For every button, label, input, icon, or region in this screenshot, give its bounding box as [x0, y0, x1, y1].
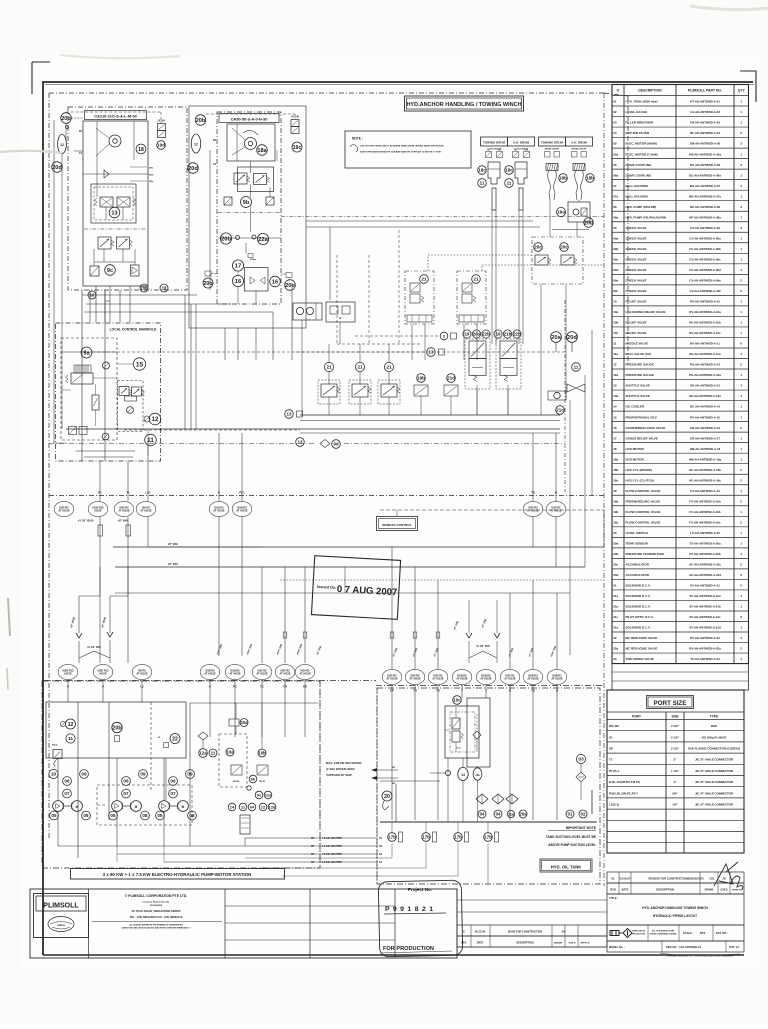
node circles (U2)	[236, 236, 240, 240]
svg-text:BALL VALVE (1/2): BALL VALVE (1/2)	[626, 352, 651, 356]
svg-text:LS(2,1): LS(2,1)	[609, 803, 619, 807]
motor-pump set (pump group x117)	[112, 801, 123, 812]
svg-text:A.H. DRUM: A.H. DRUM	[571, 141, 587, 145]
svg-text:CHECK VALVE: CHECK VALVE	[626, 247, 647, 251]
suction header lines	[58, 845, 377, 847]
oil cooler 14 body	[240, 815, 250, 834]
svg-text:# 2 1/2" Ø40 PIPE: # 2 1/2" Ø40 PIPE	[322, 853, 342, 856]
solenoid DCV 21 station x389	[388, 344, 390, 362]
svg-text:M: M	[135, 805, 138, 809]
svg-text:SP: SP	[311, 853, 315, 856]
breather diamond	[576, 772, 586, 782]
wire 20b dash to K1 (U2)	[206, 113, 295, 115]
svg-text:9a: 9a	[83, 351, 90, 357]
svg-text:1 1/2": 1 1/2"	[671, 769, 680, 773]
wire manifold A drops	[411, 324, 413, 360]
svg-text:AT HOSE: AT HOSE	[409, 677, 421, 681]
svg-text:FV-AH-ANTWSD-A-19b: FV-AH-ANTWSD-A-19b	[689, 510, 721, 514]
motor-pump set (pump group x58)	[53, 801, 64, 812]
pilot dash line (U2)	[218, 212, 281, 214]
wire remote control stub	[396, 510, 398, 516]
hose label I025 R2 x438 (lower right row)	[428, 669, 448, 684]
svg-text:SV-AH-ANTWSD-A-21c: SV-AH-ANTWSD-A-21c	[689, 615, 721, 619]
model no / drg no row	[607, 941, 744, 952]
svg-text:JIC 37° MALE CONNECTOR: JIC 37° MALE CONNECTOR	[695, 803, 734, 807]
pump 08 (pump group x58)	[82, 811, 91, 820]
cooler assembly upper node	[229, 719, 239, 726]
svg-text:FV-AH-ANTWSD-A-19a: FV-AH-ANTWSD-A-19a	[689, 499, 721, 503]
frame inner top line	[45, 84, 754, 86]
relief valve pair (U2)	[234, 173, 247, 184]
svg-text:DRAWN: DRAWN	[705, 889, 714, 892]
accumulator 20c right	[560, 243, 569, 252]
pressure transducer 18 (U1)	[136, 144, 146, 154]
svg-text:M: M	[182, 805, 185, 809]
svg-text:PORT SIZE: PORT SIZE	[654, 700, 687, 707]
label circle 18c (A.H. DRUM)	[505, 166, 514, 175]
svg-text:ACCUMULATOR: ACCUMULATOR	[626, 563, 650, 567]
svg-text:JH: JH	[722, 877, 725, 881]
label circle 11 (TOWING DRUM)	[478, 179, 487, 188]
accumulator 20a symbol	[551, 332, 562, 343]
label circle 15	[133, 358, 145, 370]
svg-text:17b: 17b	[454, 835, 462, 840]
wire reducing row (U2)	[218, 237, 281, 239]
svg-text:CHECK VALVE: CHECK VALVE	[626, 289, 647, 293]
svg-text:TOWING DRUM: TOWING DRUM	[541, 141, 564, 145]
hose label I06 R2 x142 (lower left row)	[132, 664, 152, 679]
pump 08 (pump group x117)	[141, 811, 150, 820]
svg-text:FLOW CONTROL VALVE: FLOW CONTROL VALVE	[626, 520, 661, 524]
svg-text:9b: 9b	[251, 776, 256, 781]
svg-text:20d: 20d	[188, 166, 198, 172]
needle 11 (cooler)	[209, 749, 217, 757]
svg-text:HC-AH-ANTWSD-A-18c: HC-AH-ANTWSD-A-18c	[689, 478, 721, 482]
pressure transducer 20b (U1)	[61, 113, 72, 124]
wire right side verticals	[569, 400, 571, 655]
svg-text:20a: 20a	[551, 335, 561, 341]
flushing shuttle diamond	[473, 731, 481, 739]
svg-text:BV-AH-ANTWSD-A-11a: BV-AH-ANTWSD-A-11a	[689, 352, 721, 356]
svg-text:APPR'VD: APPR'VD	[732, 889, 742, 892]
pressure gauge 12 (station)	[66, 719, 76, 729]
pilot dash line (U1)	[84, 228, 147, 230]
company logo cell bottom right	[607, 925, 744, 941]
svg-text:AT HOSE: AT HOSE	[480, 677, 492, 681]
svg-text:06: 06	[613, 163, 617, 167]
svg-text:04: 04	[613, 131, 617, 135]
main pressure bus line	[113, 546, 604, 548]
svg-text:10c: 10c	[613, 331, 618, 335]
svg-text:CV-AH-ANTWSD-A-09a: CV-AH-ANTWSD-A-09a	[689, 236, 721, 240]
wire U1 left drain	[53, 120, 55, 443]
svg-text:LEVEL GAUGE: LEVEL GAUGE	[626, 110, 647, 114]
svg-text:2 1/2": 2 1/2"	[671, 735, 680, 739]
svg-text:MODEL No. :: MODEL No. :	[609, 945, 625, 949]
flow control valve 19c (U2)	[292, 142, 302, 152]
svg-text:10b: 10b	[613, 321, 618, 325]
wire flushing internals	[455, 707, 457, 718]
svg-text:# 2 1/2" Ø40 PIPE: # 2 1/2" Ø40 PIPE	[322, 845, 342, 848]
svg-text:04: 04	[480, 811, 485, 816]
svg-text:19: 19	[496, 332, 501, 337]
revision header row (right block)	[607, 883, 744, 894]
svg-text:10b: 10b	[475, 773, 480, 777]
svg-text:HYD. MOTORS VIEWS CAN OF ELSE: HYD. MOTORS VIEWS CAN OF ELSEWISE SWING …	[360, 145, 444, 148]
wire shuttle block drops	[301, 320, 303, 415]
svg-text:11a: 11a	[265, 792, 272, 797]
hose label I02B R2 x533 (lower right row)	[523, 669, 543, 684]
ball valve 11a circle	[507, 810, 514, 817]
accumulator 20d (U2)	[188, 163, 199, 174]
svg-text:21: 21	[473, 277, 479, 282]
coupling 06 (pump group x58)	[63, 777, 72, 786]
hose label I01B R2 x462 (lower right row)	[452, 669, 472, 684]
DCV station B circles 19 21b 22b	[494, 330, 502, 338]
svg-text:SIZE: SIZE	[671, 715, 678, 719]
svg-text:05: 05	[613, 142, 617, 146]
shuttle valve 13 node	[427, 348, 436, 357]
pump unit U2 boundary	[217, 112, 281, 304]
svg-text:1B: 1B	[339, 318, 342, 320]
svg-text:DESCRIPTION: DESCRIPTION	[638, 89, 662, 93]
svg-text:HYD MOTOR: HYD MOTOR	[626, 457, 645, 461]
check valve 09 (pump group x164)	[186, 770, 195, 779]
transducer circles below U1	[88, 291, 96, 299]
relief valve pair (U1)	[98, 237, 111, 249]
svg-text:05: 05	[157, 813, 163, 818]
svg-text:11a: 11a	[613, 352, 618, 356]
svg-text:07: 07	[170, 791, 176, 796]
proportional valve manifold A	[405, 271, 434, 324]
svg-text:19b: 19b	[417, 376, 425, 381]
svg-text:13: 13	[428, 350, 434, 355]
svg-text:OC-AH-ANTWSD-A-14: OC-AH-ANTWSD-A-14	[690, 405, 721, 409]
solenoid 21d station	[447, 374, 456, 383]
svg-text:M: M	[76, 805, 79, 809]
hose label I01B R13 at x98 (upper row)	[88, 501, 108, 516]
svg-text:RV-AH-ANTWSD-A-10b: RV-AH-ANTWSD-A-10b	[689, 321, 721, 325]
date stamp box 07 AUG 2007	[311, 556, 400, 620]
company information cell	[88, 889, 90, 958]
gauge isolator glyph (station)	[60, 721, 65, 726]
station boundary dash-dot mid	[319, 681, 321, 868]
sea water arrows	[371, 768, 377, 780]
svg-text:11: 11	[574, 365, 579, 370]
motor-pump set (pump group x164)	[159, 801, 170, 812]
svg-text:SCALE :: SCALE :	[683, 931, 694, 935]
rail boundary dash lower	[49, 443, 316, 445]
pump control sub-block (U1)	[91, 184, 136, 223]
svg-text:01: 01	[613, 100, 617, 104]
svg-text:20d: 20d	[584, 220, 593, 226]
svg-text:17: 17	[235, 264, 242, 270]
pilot valve 21c circle	[556, 406, 565, 415]
bus line lower branches	[280, 579, 604, 581]
scan artifact streaks	[0, 151, 62, 153]
svg-text:SP: SP	[311, 837, 315, 840]
svg-text:SOLENOID D.C.V.: SOLENOID D.C.V.	[626, 605, 651, 609]
svg-text:10a: 10a	[613, 310, 618, 314]
svg-text:OIL COOLER: OIL COOLER	[626, 405, 645, 409]
brake cylinder 18b (A.H. DRUM)	[573, 164, 585, 171]
svg-text:18a: 18a	[613, 457, 618, 461]
wire left boundary drains	[54, 442, 66, 444]
svg-text:K: K	[218, 491, 220, 495]
shuttle valve 13 rail left	[285, 410, 294, 419]
svg-text:02: 02	[613, 110, 617, 114]
svg-text:NV-AH-ANTWSD-A-11: NV-AH-ANTWSD-A-11	[690, 342, 720, 346]
svg-text:EM-AH-ANTWSD-A-05: EM-AH-ANTWSD-A-05	[690, 142, 721, 146]
svg-text:CV-AH-ANTWSD-A-09: CV-AH-ANTWSD-A-09	[690, 226, 720, 230]
station long verticals	[77, 702, 79, 858]
flushing block outer	[445, 706, 479, 758]
svg-text:#2" Ø40: #2" Ø40	[118, 519, 128, 523]
hose label I025 R2 x305 (lower left row)	[295, 664, 315, 679]
svg-text:FB-AH-ANTWSD-A-03: FB-AH-ANTWSD-A-03	[690, 121, 720, 125]
svg-text:15: 15	[613, 415, 617, 419]
wire 20b dash to K1 block	[66, 111, 161, 113]
drum label TOWING DRUM	[481, 137, 508, 146]
needle valve 11 (right)	[572, 363, 581, 372]
svg-text:TEL : (65) 68613333 FAX : (6: TEL : (65) 68613333 FAX : (65) 68662419	[130, 915, 183, 919]
svg-text:21c: 21c	[613, 615, 618, 619]
svg-text:RV-AH-ANTWSD-A-10c: RV-AH-ANTWSD-A-10c	[689, 331, 721, 335]
svg-text:AT HOSE: AT HOSE	[504, 677, 516, 681]
svg-text:TWO SPEED VALVE: TWO SPEED VALVE	[626, 657, 654, 661]
svg-text:PRESSURE TRANSDUCER: PRESSURE TRANSDUCER	[626, 552, 665, 556]
svg-text:21b: 21b	[613, 605, 618, 609]
counterbalance manifold box	[532, 237, 583, 284]
svg-text:C: C	[463, 930, 465, 934]
svg-text:14: 14	[461, 773, 465, 777]
aux valve glyph (U1)	[131, 265, 140, 276]
hose label I03B R13 x68 (lower left row)	[58, 664, 78, 679]
svg-text:RELIEF VALVE: RELIEF VALVE	[626, 331, 647, 335]
svg-text:CKL: CKL	[709, 877, 715, 881]
svg-text:46 TUAS ROAD, SINGAPORE 638500: 46 TUAS ROAD, SINGAPORE 638500	[132, 909, 181, 913]
counterbalance valve right	[561, 255, 574, 265]
svg-text:SAE FLANGE CONNECTOR (CODE61): SAE FLANGE CONNECTOR (CODE61)	[688, 747, 740, 751]
bell housing 07 (pump group x58)	[63, 789, 72, 798]
svg-text:HM-AH-ANTWSD-A-18: HM-AH-ANTWSD-A-18	[690, 447, 721, 451]
proportional valve manifold B	[457, 271, 486, 324]
svg-text:12: 12	[152, 416, 159, 423]
parts table empty tail rows	[612, 664, 749, 690]
wire U2 label diagonals	[232, 128, 245, 140]
electric motor M2 (U2)	[245, 138, 257, 150]
svg-text:SV-AH-ANTWSD-A-21: SV-AH-ANTWSD-A-21	[690, 584, 720, 588]
wire U1 gauge taps	[71, 117, 83, 119]
svg-text:COUNTERBALANCE VALVE: COUNTERBALANCE VALVE	[626, 426, 666, 430]
svg-text:CHECK VALVE: CHECK VALVE	[626, 257, 647, 261]
flushing cartridge valves	[452, 718, 460, 729]
pressure gauge 12 (U2)	[191, 134, 200, 153]
svg-text:20b: 20b	[61, 116, 71, 122]
svg-text:REISSUE FOR CONSTRUCTION(DWGS/: REISSUE FOR CONSTRUCTION(DWGS/CHT)	[648, 877, 703, 881]
svg-text:IMPORTANT NOTE: IMPORTANT NOTE	[566, 826, 597, 830]
revision header (left strip)	[457, 936, 607, 947]
svg-text:190:60: 190:60	[259, 781, 266, 783]
label circle 11 (A.H. DRUM)	[505, 179, 514, 188]
svg-text:CHECK VALVE: CHECK VALVE	[626, 226, 647, 230]
svg-text:21c: 21c	[556, 408, 564, 413]
svg-text:22a: 22a	[613, 647, 618, 651]
svg-text:DRIVE COUPLING: DRIVE COUPLING	[626, 163, 653, 167]
svg-text:CHECK VALVE: CHECK VALVE	[626, 278, 647, 282]
reducing valve 22a (U2)	[257, 233, 268, 244]
wire suction (pump group x58)	[57, 812, 59, 847]
svg-text:FLOW CONTROL VALVE: FLOW CONTROL VALVE	[626, 489, 661, 493]
svg-text:NEEDLE VALVE: NEEDLE VALVE	[626, 342, 649, 346]
svg-text:TD: TD	[531, 491, 535, 495]
drum label A.H. DRUM	[508, 137, 535, 146]
svg-text:1/4": 1/4"	[672, 803, 678, 807]
node circle (cooler)	[247, 786, 251, 790]
proportional valve pair (U1)	[100, 197, 113, 207]
svg-text:HT-AH-ANTWSD-A-01: HT-AH-ANTWSD-A-01	[690, 100, 720, 104]
hyd motor 18a circle (U2)	[257, 145, 268, 156]
wire U1 sub-block stubs	[105, 207, 107, 220]
wire suction (pump group x164)	[163, 812, 165, 847]
coupling 06 (pump group x117)	[122, 777, 131, 786]
remote control box	[377, 517, 418, 531]
svg-text:20b: 20b	[285, 283, 295, 289]
svg-text:07a: 07a	[613, 194, 618, 198]
coupling 06 (pump group x164)	[169, 777, 178, 786]
svg-text:TEMP. SENSOR: TEMP. SENSOR	[626, 541, 649, 545]
svg-text:SP: SP	[311, 861, 315, 864]
hyd cylinder 18c (A.H. DRUM)	[515, 162, 527, 184]
bus risers right	[603, 510, 605, 547]
svg-text:20b: 20b	[203, 281, 212, 287]
pump unit U1 label CA210	[85, 111, 147, 120]
svg-text:20b: 20b	[613, 552, 618, 556]
boundary vertical dash near table	[603, 93, 605, 886]
svg-text:17: 17	[613, 436, 617, 440]
svg-text:SH-AH-ANTWSD-A-13: SH-AH-ANTWSD-A-13	[690, 384, 720, 388]
svg-text:12a: 12a	[613, 373, 618, 377]
svg-text:04: 04	[496, 811, 501, 816]
counterbalance valve left	[535, 255, 548, 265]
check 9b (cooler)	[249, 775, 257, 783]
oil cooler pump 14	[458, 767, 468, 780]
svg-text:06: 06	[64, 779, 70, 784]
svg-text:21b: 21b	[504, 332, 512, 337]
label circle 18b (A.H. DRUM)	[586, 174, 595, 183]
svg-text:MC REDUCING VALVE: MC REDUCING VALVE	[626, 647, 658, 651]
reducing valve 20b (U2)	[220, 233, 231, 244]
svg-text:ACCUMULATOR: ACCUMULATOR	[626, 573, 650, 577]
svg-text:FV-AH-ANTWSD-A-19c: FV-AH-ANTWSD-A-19c	[689, 520, 721, 524]
svg-text:HP-AH-ANTWSD-A-08: HP-AH-ANTWSD-A-08	[690, 205, 720, 209]
relief assembly box (U2)	[238, 167, 274, 192]
svg-text:LG-AH-ANTWSD-A-02: LG-AH-ANTWSD-A-02	[690, 110, 720, 114]
revision table C row (left strip)	[457, 925, 607, 936]
electro-hydraulic pump-motor station label box	[71, 869, 285, 880]
svg-text:EST. WT. :: EST. WT. :	[716, 931, 728, 935]
svg-text:08a: 08a	[613, 215, 618, 219]
svg-text:MC REDUCING VALVE: MC REDUCING VALVE	[626, 636, 658, 640]
svg-text:21d: 21d	[447, 376, 455, 381]
svg-text:18: 18	[162, 285, 167, 290]
svg-text:UNLOADING RELIEF VALVE: UNLOADING RELIEF VALVE	[626, 310, 666, 314]
hose coupling glyphs	[98, 525, 103, 536]
svg-text:SHUTTLE VALVE: SHUTTLE VALVE	[626, 394, 650, 398]
drawing title box HYD.ANCHOR HANDLING / TOWING WINCH	[405, 96, 524, 111]
svg-text:50bar: 50bar	[52, 745, 58, 747]
svg-text:BSP: BSP	[711, 724, 717, 728]
freewheel block right	[568, 202, 590, 222]
svg-text:PRESSURE GAUGE: PRESSURE GAUGE	[626, 363, 654, 367]
wire U1 jogs to manifold	[82, 294, 96, 296]
svg-text:ALL THICKNESS IN MM: ALL THICKNESS IN MM	[652, 930, 675, 933]
svg-text:PLIMSOLL: PLIMSOLL	[43, 903, 79, 910]
wire suction (pump group x117)	[116, 812, 118, 847]
main drawing frame	[43, 82, 753, 955]
check valve 9a (manifold)	[81, 347, 92, 358]
svg-text:SOLENOID D.C.V.: SOLENOID D.C.V.	[626, 626, 651, 630]
svg-text:20: 20	[613, 531, 617, 535]
pressure transducer 20b (station)	[112, 722, 122, 732]
svg-text:LOCAL CONTROL MANIFOLD: LOCAL CONTROL MANIFOLD	[110, 328, 157, 332]
wire cooler piping	[202, 740, 204, 749]
relief 10b (cooler)	[258, 749, 266, 757]
heat exchanger block right	[548, 391, 566, 400]
svg-text:22b: 22b	[482, 332, 490, 337]
svg-text:60LMP: 60LMP	[233, 781, 240, 783]
svg-text:11: 11	[68, 736, 73, 742]
counterbalance 16b circle (U2)	[270, 276, 281, 287]
svg-text:AT HOSE: AT HOSE	[118, 509, 130, 513]
wire U1 outputs down	[95, 286, 97, 322]
svg-text:18c: 18c	[505, 168, 513, 173]
svg-text:12a: 12a	[269, 804, 276, 809]
svg-text:Company Registration No.: Company Registration No.	[142, 901, 170, 904]
svg-text:P1: P1	[98, 491, 102, 495]
check valve 09 (pump group x117)	[139, 770, 148, 779]
svg-text:19a: 19a	[557, 210, 565, 216]
suction strainer row	[388, 833, 397, 842]
cross relief 17 (U2)	[232, 260, 243, 271]
motor box (U2)	[227, 124, 275, 161]
wire drum clutch lines down	[491, 210, 493, 344]
svg-text:CHK'D: CHK'D	[569, 943, 576, 945]
svg-text:20c: 20c	[534, 245, 542, 250]
port size table grid	[607, 711, 744, 713]
wire lower-right hose drops to tank	[391, 685, 393, 820]
svg-text:SHAFT, RPM WAS WORKED PR.: SHAFT, RPM WAS WORKED PR. ESR EAR WASH P…	[360, 151, 442, 154]
brake ports (A.H. DRUM)	[572, 152, 578, 158]
svg-text:21: 21	[326, 365, 332, 371]
svg-text:P 9 9 1 8 2 1: P 9 9 1 8 2 1	[385, 906, 434, 913]
svg-text:11: 11	[211, 750, 216, 755]
svg-text:13: 13	[286, 412, 292, 417]
title cell (right block)	[607, 894, 744, 925]
svg-text:AT HOSE: AT HOSE	[279, 672, 291, 676]
svg-text:AT HOSE: AT HOSE	[551, 677, 563, 681]
svg-text:T1: T1	[609, 758, 613, 762]
svg-text:BELL HOUSING: BELL HOUSING	[626, 194, 649, 198]
pump unit U1 main box	[83, 121, 148, 286]
svg-text:M1b: M1b	[149, 175, 154, 177]
svg-text:14: 14	[230, 804, 235, 809]
svg-text:TITLE :: TITLE :	[609, 896, 619, 900]
hose label I01B R2 x210 (lower left row)	[200, 664, 220, 679]
svg-text:DRAWN: DRAWN	[554, 942, 563, 945]
shuttle valve 13 (U1)	[109, 207, 120, 218]
svg-text:21: 21	[421, 277, 427, 282]
